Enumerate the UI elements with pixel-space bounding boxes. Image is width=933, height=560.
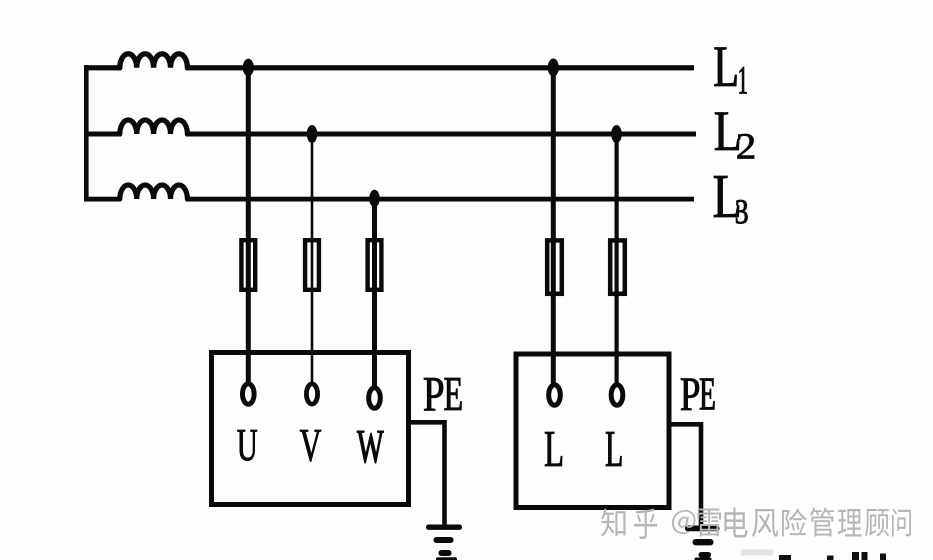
- label PE (left): [424, 378, 443, 411]
- label PE (right): [681, 378, 699, 410]
- equipment box 1 (U V W): [212, 353, 409, 505]
- fuse F5: [610, 240, 625, 293]
- wire: U phase drop x=248: [246, 67, 251, 382]
- ground symbol (right) bar4 (cut at bottom): [695, 558, 712, 560]
- node junction dot on L3 at x=374: [369, 190, 380, 207]
- equipment box 2 (L L): [516, 354, 669, 508]
- ground symbol (left) bar2: [434, 537, 454, 543]
- label L1: [715, 47, 737, 86]
- fuse F2: [305, 240, 319, 290]
- label L (left terminal): [545, 432, 562, 466]
- watermark: 知乎 @雷电风险管理顾问: [601, 507, 911, 539]
- fuse F3: [368, 240, 382, 290]
- inductor coil on L3: [120, 185, 188, 199]
- terminal oval V: [306, 384, 317, 404]
- label V: [300, 430, 321, 462]
- label L (right terminal): [606, 432, 622, 466]
- terminal oval L (left): [549, 385, 561, 406]
- wire: left vertical bus: [84, 65, 89, 201]
- terminal oval L (right): [611, 385, 623, 406]
- wire: phase line L2 horizontal: [84, 132, 120, 137]
- ground symbol (left) bar4 (cut at bottom): [436, 557, 457, 560]
- fuse F4: [547, 240, 562, 293]
- node junction dot on L2 at x=616: [611, 125, 622, 143]
- partial cut glyphs at bottom edge: [741, 550, 773, 556]
- ground symbol (right) bar2: [693, 539, 714, 545]
- ground symbol (right) bar1: [685, 526, 720, 532]
- node junction dot on L1 at x=553: [548, 59, 559, 77]
- ground symbol (left) bar1: [426, 525, 462, 530]
- terminal oval U: [243, 384, 255, 405]
- label W: [357, 431, 383, 463]
- terminal oval W: [369, 388, 381, 409]
- wire: W phase drop x=374: [372, 198, 377, 386]
- fuse F1: [241, 240, 255, 290]
- wire: right drop x=553: [551, 67, 556, 383]
- node junction dot on L1 at x=248: [243, 59, 254, 76]
- inductor coil on L1: [120, 54, 188, 68]
- wire: phase line L1 horizontal: [84, 65, 120, 70]
- node junction dot on L2 at x=312: [307, 125, 318, 143]
- wire: PE stub from box1: [411, 422, 445, 526]
- ground symbol (left) bar3: [439, 550, 452, 556]
- inductor coil on L2: [120, 120, 188, 134]
- label U: [238, 430, 258, 461]
- label L3: [714, 176, 739, 217]
- ground symbol (right) bar3: [699, 552, 712, 558]
- wire: phase line L3 horizontal: [84, 197, 120, 202]
- wire: PE stub from box2: [669, 424, 701, 526]
- wire: right drop x=616: [615, 134, 619, 383]
- wire: V phase drop x=312: [311, 134, 314, 383]
- label L2: [715, 113, 739, 150]
